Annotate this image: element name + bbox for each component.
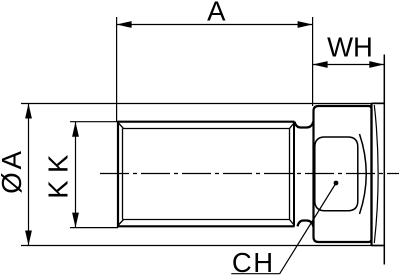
svg-text:CH: CH	[232, 247, 275, 278]
svg-text:WH: WH	[327, 32, 373, 63]
svg-text:A: A	[207, 0, 226, 27]
svg-text:ØA: ØA	[0, 148, 27, 194]
svg-text:KK: KK	[43, 147, 74, 199]
